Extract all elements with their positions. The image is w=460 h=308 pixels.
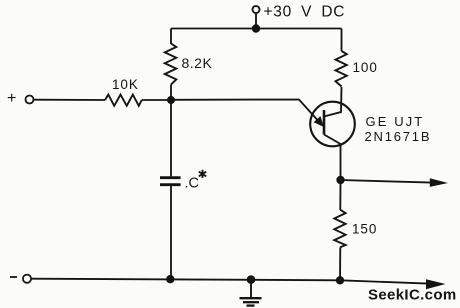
label minus input	[10, 276, 17, 278]
svg-text:100: 100	[353, 60, 378, 75]
wire node A to capacitor	[170, 100, 172, 176]
emitter arrowhead	[314, 116, 324, 127]
terminal plus input	[26, 96, 34, 104]
wire 8.2K to node A	[170, 85, 172, 100]
label + input	[7, 90, 16, 107]
resistor 8.2K	[165, 44, 177, 85]
resistor 10K	[105, 95, 142, 106]
upper output arrowhead	[430, 178, 448, 187]
label 150	[352, 222, 377, 237]
wire input to 10K	[34, 99, 105, 101]
svg-text:.C: .C	[185, 176, 200, 192]
svg-text:GE UJT: GE UJT	[366, 114, 425, 129]
node bottom left junction	[166, 275, 174, 283]
wire emitter lead	[171, 100, 321, 125]
svg-text:+30 V DC: +30 V DC	[264, 3, 346, 20]
label GE UJT	[366, 114, 425, 129]
label asterisk of C	[199, 170, 206, 178]
label 8.2K	[182, 55, 213, 71]
lower output arrowhead	[426, 279, 446, 289]
wire top bus	[171, 28, 342, 30]
terminal minus input	[23, 275, 31, 283]
wire top bus to R100	[341, 29, 343, 52]
svg-text:8.2K: 8.2K	[182, 55, 213, 71]
label C	[185, 176, 200, 192]
transistor Q1 GE UJT circle	[310, 102, 355, 147]
node ground junction	[247, 275, 256, 284]
label 100	[353, 60, 378, 75]
capacitor C* bottom plate	[160, 183, 181, 186]
transistor base-1 lead	[324, 135, 341, 181]
svg-text:150: 150	[352, 222, 377, 237]
wire capacitor to bottom bus	[170, 186, 172, 279]
label SeekIC.com watermark	[368, 287, 457, 304]
node bottom right junction	[336, 276, 344, 284]
wire supply stub	[255, 13, 257, 29]
wire output upper arrow	[341, 180, 433, 183]
transistor base bar	[323, 110, 326, 135]
resistor 100	[336, 51, 347, 87]
wire node B1 to R150	[339, 180, 341, 210]
wire left drop to R 8.2K	[170, 29, 172, 45]
svg-text:+: +	[7, 90, 16, 107]
wire bottom bus	[31, 279, 340, 281]
label 2N1671B	[365, 129, 432, 144]
terminal +30V supply	[253, 6, 260, 13]
ground	[240, 280, 262, 306]
wire output lower arrow	[340, 280, 428, 283]
label +30 V DC	[264, 3, 346, 20]
capacitor C* top plate	[160, 176, 181, 179]
svg-text:10K: 10K	[112, 77, 139, 92]
svg-text:SeekIC.com: SeekIC.com	[368, 287, 457, 304]
transistor base-2 lead	[324, 87, 342, 117]
node B1 output junction	[336, 176, 344, 184]
wire 10K to node A	[142, 99, 171, 101]
label 10K	[112, 77, 139, 92]
wire R150 to bottom node	[339, 247, 341, 280]
node supply junction	[252, 24, 260, 32]
node A junction	[167, 96, 175, 104]
svg-text:2N1671B: 2N1671B	[365, 129, 432, 144]
resistor 150	[334, 210, 345, 248]
